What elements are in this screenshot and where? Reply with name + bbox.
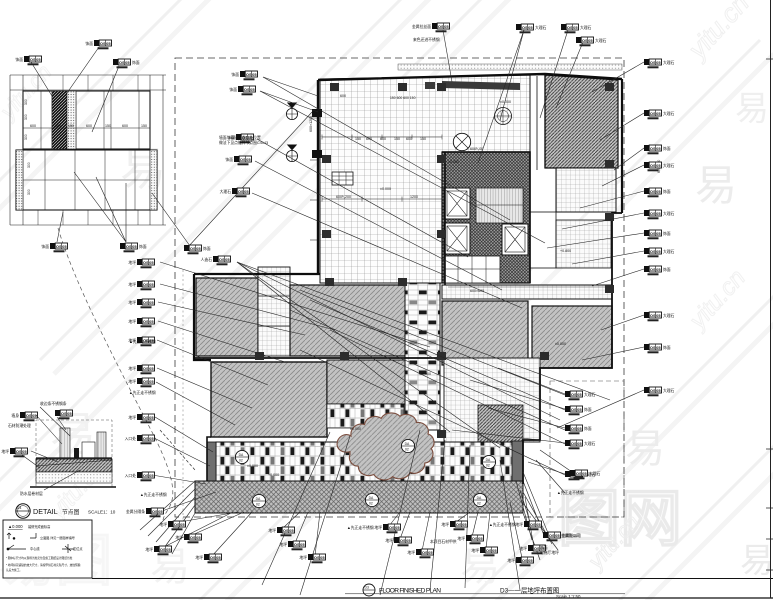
round column — [453, 133, 470, 150]
elevator 1 — [444, 188, 470, 219]
main walls — [194, 74, 622, 484]
svg-text:饰面: 饰面 — [231, 72, 239, 77]
leader lines — [152, 30, 644, 595]
svg-text:* 地坪拼花铺贴的放大尺寸，请按甲供石材实际尺寸，放线预确: * 地坪拼花铺贴的放大尺寸，请按甲供石材实际尺寸，放线预确 — [6, 563, 81, 567]
right tile room — [556, 168, 616, 212]
svg-text:饰面: 饰面 — [663, 345, 671, 350]
svg-text:大理石: 大理石 — [663, 111, 675, 116]
sheet title bar — [92, 578, 773, 580]
svg-text:饰面: 饰面 — [132, 60, 140, 65]
svg-text:地坪: 地坪 — [145, 547, 153, 552]
vertical mosaic strip — [405, 283, 440, 430]
svg-text:±0.000: ±0.000 — [350, 427, 361, 431]
svg-text:地坪: 地坪 — [507, 558, 515, 563]
svg-text:* 图中标尺寸均以现场为准定位及施工图纸设计图纸为准: * 图中标尺寸均以现场为准定位及施工图纸设计图纸为准 — [6, 556, 73, 560]
svg-text:1200: 1200 — [410, 195, 418, 199]
svg-text:150: 150 — [68, 124, 74, 128]
svg-text:大理石: 大理石 — [663, 313, 675, 318]
sidewalk band — [195, 481, 523, 513]
svg-text:150: 150 — [105, 124, 111, 128]
dashed site boundary — [175, 58, 624, 517]
sidewalk flare right — [516, 481, 558, 560]
svg-text:300: 300 — [24, 114, 28, 120]
svg-text:节点图: 节点图 — [62, 508, 80, 516]
svg-text:电梯厅地坪: 电梯厅地坪 — [540, 550, 559, 555]
svg-text:饰面: 饰面 — [15, 57, 23, 62]
legend box — [3, 520, 92, 578]
wc rooms below core — [444, 256, 500, 283]
svg-text:600: 600 — [406, 137, 412, 141]
svg-text:装修完成面标高: 装修完成面标高 — [28, 524, 50, 529]
svg-text:▲先正走不锈钢: ▲先正走不锈钢 — [140, 492, 167, 497]
stair flight — [476, 188, 523, 223]
svg-text:饰面: 饰面 — [203, 246, 211, 251]
svg-text:地坪: 地坪 — [128, 415, 136, 420]
bottom mosaic band — [216, 442, 514, 481]
left wing room B — [290, 285, 408, 356]
svg-text:饰面: 饰面 — [540, 545, 548, 550]
room gray SW of core — [442, 301, 528, 365]
svg-text:来色还进不锈钢: 来色还进不锈钢 — [413, 37, 440, 42]
svg-text:300: 300 — [27, 189, 31, 195]
left wing room A — [196, 278, 258, 356]
svg-text:本项目石材甲供: 本项目石材甲供 — [430, 539, 457, 544]
svg-text:▲先正走不锈钢: ▲先正走不锈钢 — [129, 339, 156, 344]
svg-text:600²⁄₁200: 600²⁄₁200 — [336, 195, 351, 199]
svg-text:▲先正走不锈钢: ▲先正走不锈钢 — [489, 522, 516, 527]
room D — [327, 360, 408, 404]
svg-text:易: 易 — [625, 427, 665, 471]
callout labels — [94, 40, 112, 49]
svg-text:地坪: 地坪 — [175, 535, 183, 540]
svg-text:±0.000: ±0.000 — [247, 464, 258, 468]
svg-text:600: 600 — [380, 137, 386, 141]
elevator core hatch — [442, 152, 530, 283]
mosaic patch under room D — [327, 404, 404, 428]
medallion — [495, 108, 512, 125]
svg-text:大理石: 大理石 — [584, 392, 596, 397]
svg-text:地坪: 地坪 — [279, 542, 287, 547]
svg-text:金属拉丝面: 金属拉丝面 — [412, 24, 431, 29]
elevator 2 — [444, 223, 470, 254]
svg-text:墙面与幕墙区收口处位置: 墙面与幕墙区收口处位置 — [219, 135, 261, 140]
svg-text:立面图,详见一层图样编号: 立面图,详见一层图样编号 — [40, 535, 75, 540]
svg-text:300: 300 — [24, 134, 28, 140]
svg-text:大理石: 大理石 — [663, 211, 675, 216]
svg-text:150: 150 — [394, 137, 400, 141]
svg-text:饰面: 饰面 — [663, 146, 671, 151]
svg-text:饰面: 饰面 — [229, 87, 237, 92]
svg-text:地坪: 地坪 — [128, 366, 136, 371]
lobby tile floor — [320, 75, 530, 283]
svg-text:地坪: 地坪 — [515, 522, 523, 527]
svg-text:±0.000: ±0.000 — [380, 187, 391, 191]
svg-text:150: 150 — [420, 137, 426, 141]
svg-text:600: 600 — [30, 124, 36, 128]
wall benchmark squares — [312, 109, 322, 117]
svg-text:饰面: 饰面 — [139, 244, 147, 249]
svg-text:墙身: 墙身 — [11, 413, 19, 418]
svg-text:地坪: 地坪 — [385, 538, 393, 543]
svg-text:大理石: 大理石 — [584, 441, 596, 446]
svg-text:入口处: 入口处 — [125, 473, 137, 478]
svg-text:地坪: 地坪 — [374, 525, 382, 530]
room gray SE — [532, 306, 612, 368]
detail title — [16, 504, 30, 518]
svg-text:D3: D3 — [365, 586, 369, 590]
sidewalk flare left — [140, 430, 195, 554]
svg-text:地坪: 地坪 — [128, 260, 136, 265]
svg-text:150: 150 — [55, 124, 61, 128]
svg-text:600: 600 — [366, 137, 372, 141]
svg-text:饰面: 饰面 — [663, 189, 671, 194]
svg-text:人造石: 人造石 — [201, 257, 213, 262]
svg-text:DETAIL: DETAIL — [33, 507, 58, 516]
svg-text:金属防公司: 金属防公司 — [561, 533, 580, 538]
svg-text:地坪: 地坪 — [128, 319, 136, 324]
svg-text:300: 300 — [27, 162, 31, 168]
svg-text:定位点: 定位点 — [73, 546, 83, 551]
svg-text:600: 600 — [122, 124, 128, 128]
paving datum circles — [235, 450, 248, 463]
svg-text:SCALE1：10: SCALE1：10 — [88, 510, 116, 515]
svg-text:地坪: 地坪 — [299, 555, 307, 560]
svg-text:地坪: 地坪 — [268, 528, 276, 533]
top-left tile detail plan — [10, 75, 166, 225]
small plan squares (columns) — [398, 83, 407, 91]
svg-text:±0.000: ±0.000 — [420, 372, 431, 376]
svg-text:▲0.000: ▲0.000 — [8, 524, 23, 529]
svg-text:易: 易 — [120, 143, 166, 195]
svg-text:饰面: 饰面 — [225, 157, 233, 162]
svg-text:地坪: 地坪 — [1, 449, 9, 454]
svg-text:地坪: 地坪 — [441, 522, 449, 527]
svg-text:饰面: 饰面 — [663, 267, 671, 272]
svg-text:地坪: 地坪 — [407, 550, 415, 555]
svg-text:收边条不锈钢条: 收边条不锈钢条 — [40, 401, 67, 406]
svg-text:大理石: 大理石 — [663, 249, 675, 254]
svg-text:D3—一层地坪布置图: D3—一层地坪布置图 — [500, 586, 559, 595]
svg-text:地坪: 地坪 — [471, 548, 479, 553]
wall/floor junction section detail — [30, 420, 116, 487]
svg-text:金属分隔条: 金属分隔条 — [126, 509, 145, 514]
svg-text:600: 600 — [86, 124, 92, 128]
svg-text:150: 150 — [141, 124, 147, 128]
svg-text:饰面: 饰面 — [663, 231, 671, 236]
svg-text:地坪: 地坪 — [128, 300, 136, 305]
svg-text:饰面: 饰面 — [85, 41, 93, 46]
svg-text:大理石: 大理石 — [589, 471, 601, 476]
svg-text:中心线: 中心线 — [30, 546, 40, 551]
svg-text:饰面: 饰面 — [584, 426, 592, 431]
svg-text:饰面: 饰面 — [41, 244, 49, 249]
svg-text:大理石: 大理石 — [663, 60, 675, 65]
svg-text:150: 150 — [355, 137, 361, 141]
svg-text:大理石: 大理石 — [220, 189, 232, 194]
svg-text:做法下见点缝样节点图C4143: 做法下见点缝样节点图C4143 — [219, 140, 268, 145]
svg-text:饰面: 饰面 — [584, 407, 592, 412]
elevator 3 — [502, 224, 528, 255]
svg-text:地坪: 地坪 — [195, 555, 203, 560]
svg-text:认后方施工。: 认后方施工。 — [6, 568, 22, 572]
svg-text:300: 300 — [24, 99, 28, 105]
svg-text:150 600 600 150: 150 600 600 150 — [390, 96, 416, 100]
svg-text:石材防潮处理: 石材防潮处理 — [8, 423, 31, 428]
svg-text:地坪: 地坪 — [128, 282, 136, 287]
svg-text:±0.000: ±0.000 — [448, 160, 459, 164]
cloud stone area — [337, 413, 434, 480]
lower right tile area — [444, 358, 540, 442]
svg-text:▲先正走不锈钢: ▲先正走不锈钢 — [557, 490, 584, 495]
canopy stipple band — [398, 64, 622, 70]
room C lower-left — [211, 362, 327, 437]
svg-text:地坪: 地坪 — [457, 536, 465, 541]
svg-text:防水层卷材层: 防水层卷材层 — [20, 491, 43, 496]
svg-text:FLOOR FINISHED PLAN: FLOOR FINISHED PLAN — [379, 588, 441, 595]
svg-text:▲先正走不锈钢: ▲先正走不锈钢 — [347, 525, 374, 530]
svg-text:▲先正走不锈钢: ▲先正走不锈钢 — [129, 390, 156, 395]
svg-text:大理石: 大理石 — [663, 388, 675, 393]
band end caps — [207, 442, 216, 482]
reception desk — [332, 172, 353, 185]
svg-text:易: 易 — [695, 162, 737, 209]
left wing stair strip — [258, 267, 290, 356]
svg-text:600¹⁄₂00: 600¹⁄₂00 — [470, 147, 483, 151]
svg-text:±0.000: ±0.000 — [555, 342, 566, 346]
svg-text:地坪: 地坪 — [159, 522, 167, 527]
svg-text:大理石: 大理石 — [580, 25, 592, 30]
svg-text:入口处: 入口处 — [125, 436, 137, 441]
svg-text:地坪: 地坪 — [128, 379, 136, 384]
svg-text:D4: D4 — [17, 506, 21, 510]
svg-text:地坪: 地坪 — [519, 546, 527, 551]
svg-text:大理石: 大理石 — [595, 38, 607, 43]
page border right — [770, 0, 772, 598]
dark lintel band — [442, 81, 520, 90]
svg-text:600: 600 — [340, 94, 346, 98]
right rooms mid — [530, 212, 556, 268]
svg-text:+0.000: +0.000 — [268, 473, 279, 477]
svg-text:大理石: 大理石 — [535, 25, 547, 30]
svg-text:Scale 1:1:50: Scale 1:1:50 — [556, 594, 581, 599]
svg-text:易: 易 — [735, 90, 769, 128]
svg-text:±0.000: ±0.000 — [500, 100, 511, 104]
svg-text:易: 易 — [740, 542, 773, 580]
svg-text:大理石: 大理石 — [663, 163, 675, 168]
svg-text:+0.800: +0.800 — [560, 249, 571, 253]
top-right hatched room — [545, 75, 618, 168]
corridor strip — [442, 285, 612, 299]
